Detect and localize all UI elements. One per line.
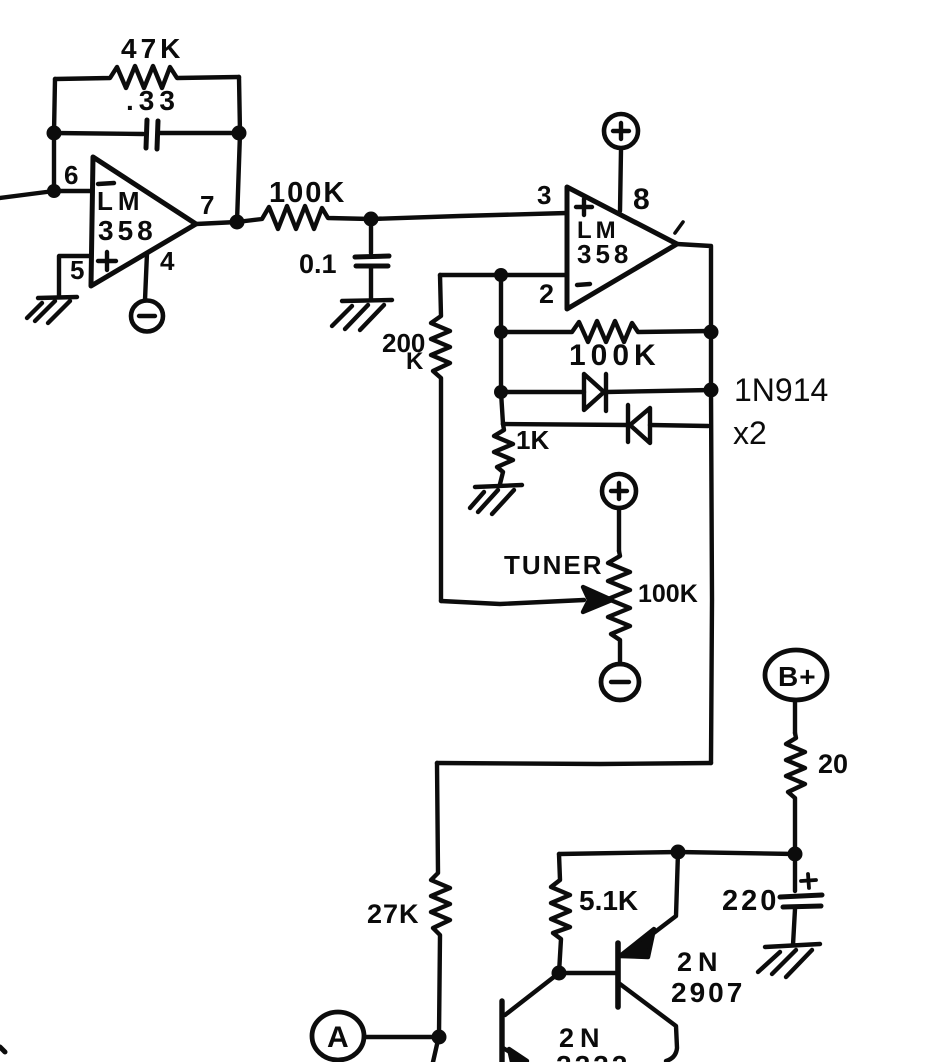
- svg-text:LM: LM: [97, 186, 145, 216]
- svg-text:K: K: [406, 348, 424, 375]
- svg-text:8: 8: [633, 183, 650, 216]
- svg-text:7: 7: [200, 190, 214, 220]
- svg-text:A: A: [327, 1021, 349, 1054]
- svg-text:4: 4: [160, 246, 175, 276]
- svg-text:2907: 2907: [671, 977, 745, 1008]
- svg-text:2N: 2N: [559, 1023, 606, 1053]
- svg-text:B+: B+: [778, 661, 817, 692]
- svg-text:x2: x2: [733, 415, 767, 451]
- svg-text:5.1K: 5.1K: [579, 885, 638, 916]
- svg-text:1K: 1K: [516, 425, 549, 455]
- svg-text:358: 358: [577, 239, 632, 269]
- svg-text:6: 6: [64, 160, 78, 190]
- svg-text:5: 5: [70, 255, 84, 285]
- svg-text:100K: 100K: [569, 339, 661, 372]
- svg-text:100K: 100K: [269, 177, 346, 209]
- svg-text:27K: 27K: [367, 899, 420, 929]
- svg-text:20: 20: [818, 749, 848, 779]
- svg-text:47K: 47K: [121, 33, 184, 64]
- svg-text:0.1: 0.1: [299, 249, 337, 279]
- svg-text:2N: 2N: [677, 947, 724, 977]
- svg-text:100K: 100K: [638, 580, 698, 608]
- svg-text:.33: .33: [126, 85, 180, 116]
- svg-text:2222: 2222: [556, 1050, 630, 1062]
- svg-text:TUNER: TUNER: [504, 550, 604, 580]
- svg-text:220: 220: [722, 885, 779, 917]
- svg-text:3: 3: [537, 180, 551, 210]
- svg-text:2: 2: [539, 279, 554, 309]
- svg-text:1N914: 1N914: [734, 372, 828, 408]
- svg-text:358: 358: [98, 215, 157, 246]
